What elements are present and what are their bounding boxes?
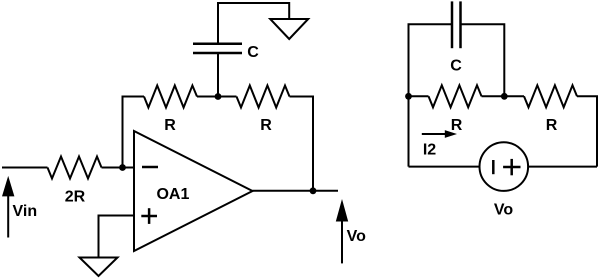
wire: bottom right from source — [528, 166, 597, 168]
svg-text:OA1: OA1 — [156, 186, 189, 203]
wire: between right-circuit resistors — [482, 95, 525, 97]
wire: right rail — [577, 96, 597, 166]
source minus bar — [492, 160, 495, 174]
svg-text:R: R — [260, 117, 272, 134]
resistor R2 (feedback right) — [237, 86, 290, 108]
svg-text:C: C — [247, 44, 259, 61]
arrow: Vin source — [2, 176, 14, 238]
wire: 2R to inverting input — [102, 167, 135, 169]
arrow: Vo output (left circuit) — [336, 199, 348, 263]
wire: capacitor right to middle node — [461, 24, 505, 96]
source plus sign — [503, 159, 520, 175]
wire: right circuit top-left rail — [409, 24, 453, 166]
svg-text:Vo: Vo — [347, 228, 366, 245]
svg-text:I2: I2 — [423, 142, 436, 159]
svg-text:Vin: Vin — [12, 203, 37, 220]
svg-text:R: R — [451, 117, 463, 134]
wire: capacitor to top ground — [218, 3, 289, 44]
svg-text:R: R — [164, 117, 176, 134]
wire: between R1 and R2 — [197, 96, 237, 98]
wire: Vin input lead — [2, 167, 48, 169]
svg-text:Vo: Vo — [494, 202, 513, 219]
op-amp inverting input minus sign — [142, 166, 158, 169]
resistor R (right circuit left) — [429, 85, 482, 107]
svg-text:2R: 2R — [65, 189, 86, 206]
resistor R1 (feedback left) — [144, 86, 197, 108]
ground (capacitor, top right) — [270, 19, 308, 39]
node: output junction — [310, 187, 317, 194]
op-amp OA1 — [134, 131, 253, 251]
node: feedback mid junction — [215, 93, 222, 100]
resistor R (right circuit right) — [524, 85, 577, 107]
source Vo (circle) — [480, 142, 529, 191]
resistor 2R — [48, 157, 102, 179]
node: inverting input junction — [119, 164, 126, 171]
svg-text:R: R — [546, 117, 558, 134]
op-amp non-inverting input plus sign — [141, 208, 157, 224]
wire: non-inverting input to ground — [99, 216, 135, 258]
wire: capacitor stub from feedback node — [217, 53, 219, 97]
wire: op-amp output — [253, 190, 339, 192]
node: right circuit left junction — [405, 93, 412, 100]
ground (non-inverting input) — [80, 258, 118, 277]
capacitor C (right circuit) — [452, 1, 461, 48]
capacitor C (left circuit) — [193, 44, 242, 53]
node: right circuit mid junction — [501, 93, 508, 100]
wire: bottom left to source — [409, 166, 480, 168]
wire: feedback right riser to output — [290, 97, 314, 191]
svg-text:C: C — [450, 58, 462, 75]
wire: middle left lead — [409, 95, 429, 97]
wire: feedback left riser — [123, 97, 145, 168]
arrow: I2 current — [422, 130, 457, 138]
